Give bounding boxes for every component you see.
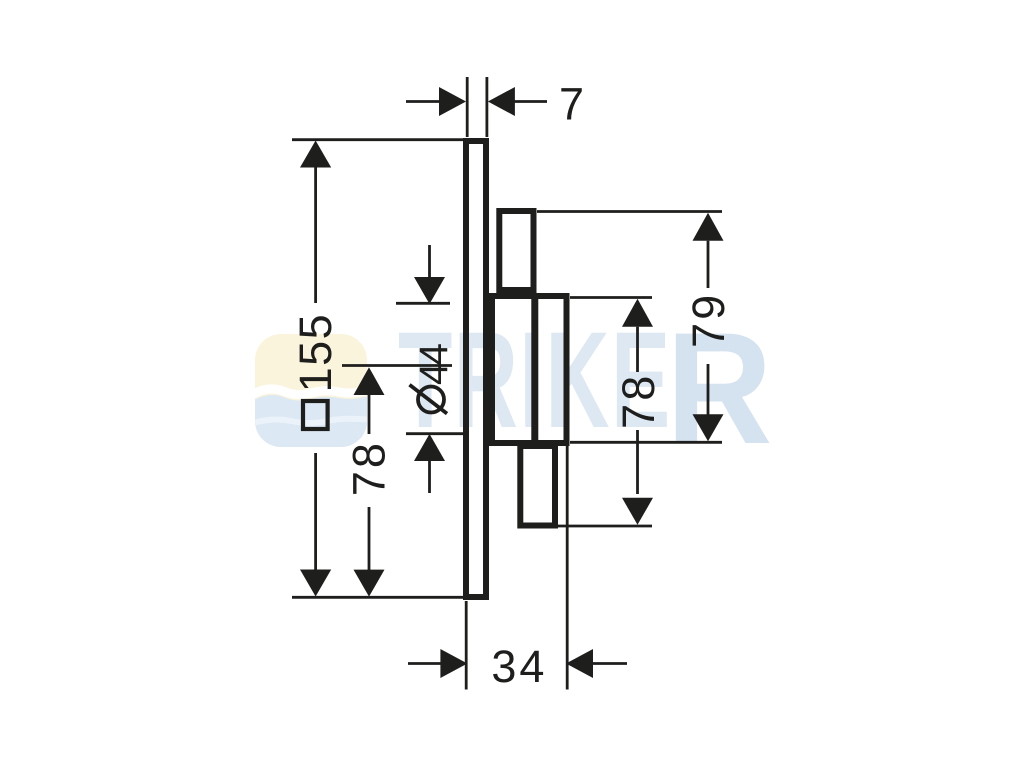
svg-text:34: 34: [491, 641, 547, 692]
dim 79 top arrow: [693, 213, 724, 241]
dim d44 bottom tail: [428, 460, 431, 493]
dim 78 right line lower segment: [636, 430, 639, 494]
dim d44 up arrow: [414, 434, 445, 461]
dim 7 left tail: [406, 100, 440, 103]
dim d44 label: [412, 363, 456, 385]
dim 155 top extension line: [292, 138, 463, 141]
dim 34 left arrow: [440, 649, 467, 678]
dim 79 label: [683, 292, 734, 348]
dim 155 line upper segment: [314, 166, 317, 303]
dim 7 right extension line: [485, 77, 488, 137]
dim 78 right top extension line: [570, 296, 652, 299]
dim 7 right arrow: [488, 87, 515, 116]
dim 78 right bottom arrow: [622, 498, 653, 525]
watermark wave white divider: [250, 389, 372, 396]
dim 78 left line upper segment: [368, 395, 371, 434]
dim 34 right arrow: [566, 649, 593, 678]
watermark word TRIKE: [398, 304, 672, 457]
dim d44 down arrow: [414, 277, 445, 304]
dim d44 top tail: [428, 245, 431, 278]
watermark wave second: [250, 419, 372, 424]
watermark tile blue water: [250, 395, 372, 450]
dim 78 right line upper segment: [636, 327, 639, 372]
dim 7 left extension line: [466, 77, 469, 137]
dim 155 top arrow: [300, 141, 331, 168]
wall plate side view: [466, 141, 486, 597]
dim 34 left extension line: [465, 601, 468, 690]
dim 155 bottom arrow: [300, 570, 331, 597]
body internal edge: [531, 294, 538, 444]
dim 78 right label: [613, 373, 664, 429]
svg-text:79: 79: [683, 292, 734, 348]
dim 155 square symbol: [303, 401, 328, 429]
dim d44 bottom tick: [406, 432, 463, 435]
svg-text:78: 78: [344, 440, 395, 496]
dim 79 line upper segment: [707, 241, 710, 288]
dim 79 top extension line: [537, 210, 722, 213]
dim 78 left top arrow: [354, 367, 385, 395]
dim 79 bottom extension line: [570, 441, 722, 444]
dim 79 bottom arrow: [693, 414, 724, 441]
dim d44 top tick: [396, 302, 450, 305]
dim 78 left top tick: [342, 364, 452, 367]
dim 155 label: [290, 313, 341, 393]
dim 78 right bottom extension line: [558, 525, 652, 528]
dim 78 left bottom arrow: [354, 570, 385, 597]
dim 7 right tail: [514, 100, 547, 103]
svg-text:155: 155: [290, 313, 341, 393]
lower protrusion (thermostat handle): [520, 446, 555, 526]
dim 34 right extension line: [566, 444, 569, 690]
dim 79 line lower segment: [707, 364, 710, 415]
dim d44 diameter symbol slash: [410, 385, 448, 414]
upper protrusion (stop valve handle): [499, 211, 533, 290]
dim 78 right top arrow: [622, 299, 653, 327]
valve body: [492, 296, 567, 443]
dim 155 bottom extension line: [292, 596, 463, 599]
dim 155 line lower segment: [314, 453, 317, 570]
dim d44 diameter symbol circle: [418, 387, 444, 413]
dim 34 right tail: [593, 662, 627, 665]
svg-text:78: 78: [613, 373, 664, 429]
watermark big R: [666, 300, 772, 477]
dim 78 left label: [344, 440, 395, 496]
dim 34 left tail: [408, 662, 442, 665]
dim 78 left line lower segment: [368, 507, 371, 570]
svg-text:4: 4: [412, 343, 456, 365]
svg-text:7: 7: [559, 78, 584, 129]
dim 7 left arrow: [439, 87, 466, 116]
